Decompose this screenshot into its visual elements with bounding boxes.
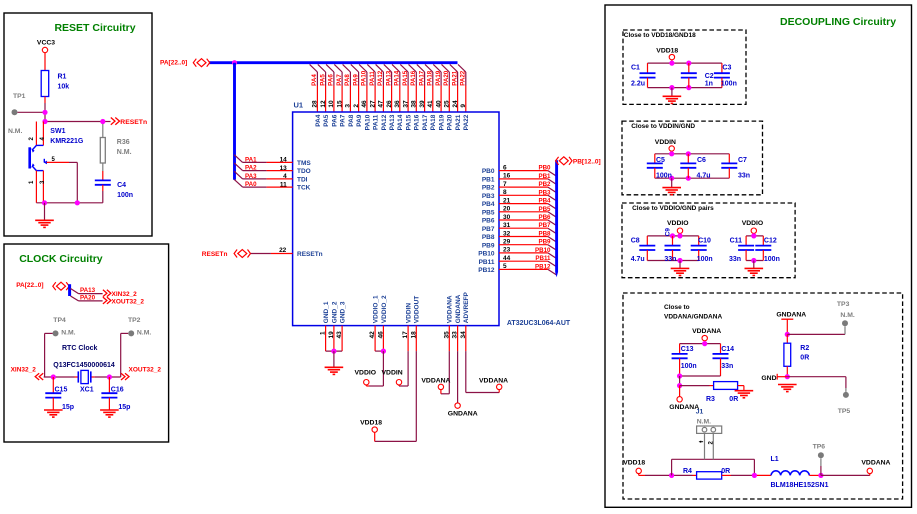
- power VDD18 symbol mid: [372, 427, 377, 432]
- svg-text:Close to: Close to: [664, 304, 690, 311]
- svg-text:PA1: PA1: [245, 156, 257, 163]
- wire C14 top: [720, 344, 722, 354]
- wire xtal node: [44, 376, 75, 378]
- svg-text:PA12: PA12: [381, 114, 388, 130]
- resistor R36: [100, 138, 105, 164]
- test point TP6: [818, 452, 824, 458]
- pin stub VDDIO_1: [374, 326, 376, 352]
- svg-text:PA7: PA7: [340, 114, 347, 127]
- wire PA13: [79, 293, 103, 295]
- bus entry PA7: [334, 64, 342, 72]
- svg-text:PA[22..0]: PA[22..0]: [160, 60, 187, 67]
- svg-text:ADVREFP: ADVREFP: [463, 291, 470, 323]
- wire gnd down: [333, 351, 335, 367]
- pin stub PA9: [358, 86, 360, 113]
- wire vddana stub1: [440, 390, 442, 394]
- GND tick: [776, 374, 778, 380]
- svg-text:PA15: PA15: [402, 70, 409, 86]
- svg-text:PB1: PB1: [482, 177, 495, 184]
- ground R2: [778, 385, 797, 392]
- svg-text:PA21: PA21: [451, 70, 458, 86]
- dashed box VDDIO: [622, 203, 795, 278]
- bus entry PB6: [548, 220, 557, 226]
- svg-text:C2: C2: [705, 73, 714, 80]
- wire C4 bottom: [102, 185, 104, 191]
- svg-text:TP4: TP4: [53, 317, 66, 324]
- wire net PA22: [465, 72, 467, 86]
- power VDD18 symbol d1: [669, 54, 674, 59]
- svg-text:TCK: TCK: [297, 185, 311, 192]
- test point TP2: [128, 330, 134, 336]
- wire net PB9: [509, 244, 548, 246]
- svg-text:PA11: PA11: [373, 114, 380, 130]
- junction TP1 node: [42, 110, 47, 115]
- junction d2 t1: [669, 151, 674, 156]
- pin stub PA12: [382, 86, 384, 113]
- svg-text:33n: 33n: [664, 256, 676, 263]
- test point TP5: [843, 392, 849, 398]
- pin stub PA22: [465, 86, 467, 113]
- svg-text:0R: 0R: [729, 396, 738, 403]
- svg-text:TDO: TDO: [297, 168, 311, 175]
- pin stub PA18: [432, 86, 434, 113]
- junction sw5 node: [75, 200, 80, 205]
- wire gnd stub: [44, 203, 46, 221]
- capacitor C10: [691, 246, 707, 250]
- wire net PB10: [509, 252, 548, 254]
- wire vdd18 stub: [374, 432, 376, 441]
- wire gnd d3b: [753, 261, 755, 269]
- svg-text:PB10: PB10: [535, 247, 551, 254]
- svg-text:8: 8: [503, 189, 507, 196]
- svg-text:R4: R4: [683, 468, 692, 475]
- svg-text:PA19: PA19: [439, 114, 446, 130]
- pin stub PA19: [440, 86, 442, 113]
- svg-text:PB9: PB9: [538, 239, 551, 246]
- bus entry PA5: [318, 64, 326, 72]
- svg-text:35: 35: [443, 331, 450, 339]
- wire vdd18 d4b: [638, 474, 640, 476]
- wire C16 gnd: [108, 398, 110, 410]
- svg-text:PA6: PA6: [331, 114, 338, 127]
- svg-text:PB12: PB12: [478, 267, 495, 274]
- svg-text:PA20: PA20: [447, 114, 454, 130]
- svg-text:DECOUPLING Circuitry: DECOUPLING Circuitry: [780, 16, 896, 28]
- svg-text:12: 12: [320, 100, 327, 108]
- pin stub PA21: [457, 86, 459, 113]
- wire vddin down: [407, 351, 409, 386]
- svg-text:GNDANA: GNDANA: [776, 312, 806, 319]
- svg-text:PA8: PA8: [348, 114, 355, 127]
- wire net PA20: [448, 72, 450, 86]
- bus entry PB7: [548, 228, 557, 234]
- junction d3a t1: [670, 233, 675, 238]
- test point TP3: [842, 320, 848, 326]
- junction R4 right: [752, 473, 757, 478]
- svg-text:PB0: PB0: [538, 165, 551, 172]
- svg-text:PB3: PB3: [538, 189, 551, 196]
- bus entry PA8: [343, 64, 351, 72]
- svg-text:TP6: TP6: [813, 444, 826, 451]
- svg-text:C7: C7: [738, 157, 747, 164]
- connector J1 pin2 circle: [711, 427, 716, 432]
- svg-text:4.7u: 4.7u: [631, 256, 645, 263]
- svg-text:PA17: PA17: [418, 70, 425, 86]
- resistor R2: [784, 343, 791, 366]
- junction r2 bot: [785, 374, 790, 379]
- svg-text:GND_2: GND_2: [331, 301, 338, 323]
- svg-text:PA4: PA4: [315, 114, 322, 127]
- wire C6 bottom: [687, 168, 689, 178]
- junction d3a t2: [677, 233, 682, 238]
- wire vdd18 d1: [671, 60, 673, 63]
- svg-text:PA13: PA13: [80, 287, 96, 294]
- wire net PB12: [509, 268, 548, 270]
- wire R36 top: [102, 124, 104, 138]
- power GNDANA symbol mid: [455, 403, 460, 408]
- wire C11 bottom: [745, 250, 747, 261]
- ground C16: [100, 410, 119, 417]
- wire vddana d4: [704, 341, 706, 344]
- wire L1 to TP6: [809, 474, 821, 476]
- wire gnd d2: [671, 178, 673, 187]
- power VDDIN symbol mid: [396, 380, 401, 385]
- svg-text:PA7: PA7: [336, 74, 343, 86]
- wire gndana circ: [679, 386, 681, 397]
- pin stub TMS: [267, 161, 293, 163]
- wire net PA1: [243, 161, 267, 163]
- bus entry PB3: [548, 195, 557, 201]
- svg-text:XC1: XC1: [80, 387, 94, 394]
- bus entry PB9: [548, 245, 557, 251]
- capacitor C6: [680, 163, 696, 167]
- bus entry PB12: [548, 269, 557, 275]
- svg-text:N.M.: N.M.: [840, 312, 854, 319]
- svg-text:C13: C13: [681, 346, 694, 353]
- svg-text:AT32UC3L064-AUT: AT32UC3L064-AUT: [507, 320, 571, 327]
- pin stub PB5: [499, 211, 509, 213]
- svg-text:VDDIO_2: VDDIO_2: [381, 295, 388, 323]
- svg-text:PA22: PA22: [463, 114, 470, 130]
- svg-text:VDDOUT: VDDOUT: [414, 296, 421, 323]
- wire C14 bottom: [720, 358, 722, 376]
- junction d1 t1: [669, 61, 674, 66]
- wire net PB11: [509, 260, 548, 262]
- pin stub PA4: [316, 86, 318, 113]
- svg-text:36: 36: [394, 100, 401, 108]
- wire C5 bottom: [654, 168, 656, 178]
- wire net PA13: [391, 72, 393, 86]
- svg-text:PB6: PB6: [482, 218, 495, 225]
- wire bottom rail d1: [648, 87, 722, 89]
- svg-text:28: 28: [312, 100, 319, 108]
- svg-text:VCC3: VCC3: [37, 40, 55, 47]
- junction d1 b2: [686, 85, 691, 90]
- svg-text:PA9: PA9: [352, 74, 359, 86]
- bus entry PA9: [351, 64, 359, 72]
- pin stub GND_1: [325, 326, 327, 352]
- power VDDIN symbol d2: [669, 146, 674, 151]
- svg-text:PB6: PB6: [538, 214, 551, 221]
- wire net PA3: [243, 178, 267, 180]
- wire vddout down: [415, 351, 417, 441]
- CLOCK circuitry frame: [4, 244, 169, 442]
- ground R3: [735, 391, 754, 398]
- wire net PA0: [243, 186, 267, 188]
- svg-text:PA13: PA13: [389, 114, 396, 130]
- junction gnd node: [42, 200, 47, 205]
- svg-text:2.2u: 2.2u: [631, 81, 645, 88]
- wire gnd d3a: [679, 261, 681, 269]
- junction gnd pins: [331, 349, 336, 354]
- wire net PA11: [374, 72, 376, 86]
- svg-text:10k: 10k: [58, 84, 70, 91]
- wire bottom rail d2: [655, 177, 730, 179]
- svg-text:PB11: PB11: [535, 255, 551, 262]
- chevrons XOUT32_2 right: [121, 373, 125, 380]
- wire vddio stub: [365, 385, 367, 386]
- svg-text:VDDANA: VDDANA: [861, 460, 890, 467]
- svg-text:14: 14: [280, 157, 288, 164]
- bus entry PB5: [548, 212, 557, 218]
- svg-text:C4: C4: [117, 182, 126, 189]
- svg-text:PA22: PA22: [460, 70, 467, 86]
- svg-text:PB8: PB8: [538, 231, 551, 238]
- wire net PA4: [316, 72, 318, 86]
- bus entry PB0: [548, 171, 557, 177]
- wire net PA21: [457, 72, 459, 86]
- svg-text:VDDIO: VDDIO: [667, 220, 689, 227]
- capacitor C1: [640, 73, 656, 77]
- test point TP4: [53, 330, 59, 336]
- svg-text:VDD18: VDD18: [360, 420, 382, 427]
- wire xtal node right: [91, 376, 95, 378]
- resistor R1: [41, 71, 49, 97]
- pin stub PB1: [499, 178, 509, 180]
- wire C2 bottom: [688, 78, 690, 88]
- wire C3 bottom: [721, 78, 723, 88]
- pin stub GNDANA: [457, 326, 459, 352]
- switch SW1 pin1 wire: [35, 171, 37, 203]
- svg-text:TP5: TP5: [838, 408, 851, 415]
- capacitor C14: [713, 354, 729, 358]
- ground d2: [662, 188, 681, 195]
- wire RESETn net: [45, 121, 103, 123]
- svg-text:PB2: PB2: [538, 181, 551, 188]
- connector J1 pin1 circle: [702, 427, 707, 432]
- chevrons XOUT32_2: [103, 297, 107, 304]
- svg-text:XIN32_2: XIN32_2: [11, 367, 37, 374]
- svg-text:2: 2: [353, 104, 360, 108]
- ground d1: [663, 96, 682, 103]
- wire net PB2: [509, 186, 548, 188]
- svg-text:10: 10: [328, 100, 335, 108]
- junction r2 top: [785, 332, 790, 337]
- wire C12 bottom: [762, 250, 764, 261]
- wire net PB5: [509, 211, 548, 213]
- svg-text:R1: R1: [58, 74, 67, 81]
- svg-text:PB0: PB0: [482, 168, 495, 175]
- wire net PA15: [407, 72, 409, 86]
- pin stub PB11: [499, 260, 509, 262]
- wire cap647.3 top: [646, 236, 648, 246]
- RESETn diamond: [234, 250, 250, 258]
- junction C15 top: [51, 374, 56, 379]
- pin stub PA13: [391, 86, 393, 113]
- svg-text:TMS: TMS: [297, 160, 311, 167]
- bus PA vertical: [233, 63, 236, 180]
- pin stub PA5: [325, 86, 327, 113]
- bus entry PA20: [442, 64, 450, 72]
- svg-text:XOUT32_2: XOUT32_2: [129, 367, 162, 374]
- power VDDIO symbol d3b: [751, 228, 756, 233]
- capacitor C7: [721, 163, 737, 167]
- svg-text:GNDANA: GNDANA: [448, 411, 478, 418]
- wire C2 top: [688, 63, 690, 73]
- wire top rail d3b: [746, 235, 763, 237]
- capacitor C16: [101, 393, 117, 397]
- pin stub PA17: [424, 86, 426, 113]
- svg-text:N.M.: N.M.: [61, 330, 75, 337]
- wire C15 gnd: [52, 398, 54, 410]
- capacitor C3: [714, 73, 730, 77]
- bus entry PB11: [548, 261, 557, 267]
- capacitor C15: [45, 393, 61, 397]
- bus entry PA14: [392, 64, 400, 72]
- pin stub PA15: [407, 86, 409, 113]
- switch SW1 pin3 wire: [42, 171, 44, 203]
- bus entry PA19: [433, 64, 441, 72]
- wire gndana left: [679, 376, 681, 386]
- wire R4 to L1: [722, 474, 731, 476]
- pin stub PB3: [499, 194, 509, 196]
- wire advrefp down: [465, 351, 467, 392]
- wire R2 bottom: [786, 366, 788, 376]
- connector J1 pin2 wire: [712, 433, 714, 459]
- bus entry PA13: [71, 289, 79, 294]
- bus PA[22..0] horizontal: [209, 61, 458, 64]
- PA bus diamond clock: [53, 282, 69, 290]
- pin stub PA6: [333, 86, 335, 113]
- wire to R3: [680, 385, 710, 387]
- pin stub TCK: [267, 186, 293, 188]
- svg-text:33: 33: [452, 331, 459, 339]
- svg-text:40: 40: [435, 100, 442, 108]
- pin stub PA16: [415, 86, 417, 113]
- svg-text:VDDANA: VDDANA: [421, 378, 450, 385]
- wire net PA5: [325, 72, 327, 86]
- wire top rail d4: [680, 343, 721, 345]
- wire cap647.3 bottom: [646, 250, 648, 261]
- svg-text:13: 13: [280, 165, 288, 172]
- svg-text:1: 1: [320, 331, 327, 335]
- svg-text:PA6: PA6: [328, 74, 335, 86]
- power VDDANA symbol mid1: [438, 384, 443, 389]
- svg-text:6: 6: [503, 164, 507, 171]
- svg-text:PB4: PB4: [482, 201, 495, 208]
- pin stub PB2: [499, 186, 509, 188]
- capacitor C9: [665, 246, 681, 250]
- bus entry PA13: [384, 64, 392, 72]
- ground C15: [44, 410, 63, 417]
- bus entry PA15: [400, 64, 408, 72]
- bus entry PA22: [458, 64, 466, 72]
- svg-text:43: 43: [336, 331, 343, 339]
- pin stub VDDIN: [407, 326, 409, 352]
- svg-text:100n: 100n: [721, 81, 737, 88]
- svg-text:RTC Clock: RTC Clock: [62, 345, 98, 352]
- svg-text:C8: C8: [631, 238, 640, 245]
- wire net PB1: [509, 178, 548, 180]
- svg-text:PB[12..0]: PB[12..0]: [573, 158, 601, 165]
- svg-text:PA2: PA2: [245, 165, 257, 172]
- pin stub PA10: [366, 86, 368, 113]
- svg-text:PA0: PA0: [245, 181, 257, 188]
- pin stub PB7: [499, 227, 509, 229]
- switch SW1 pin2 wire: [35, 122, 37, 146]
- wire net PB8: [509, 236, 548, 238]
- svg-text:KMR221G: KMR221G: [50, 138, 84, 145]
- svg-text:TP2: TP2: [128, 317, 141, 324]
- ground d3a: [671, 268, 690, 275]
- wire net PA2: [243, 170, 267, 172]
- svg-text:11: 11: [280, 181, 287, 188]
- capacitor C2: [681, 73, 697, 77]
- svg-text:18: 18: [410, 331, 417, 339]
- wire bottom rail d4: [680, 375, 721, 377]
- pin stub PA11: [374, 86, 376, 113]
- ground d3b: [745, 268, 764, 275]
- svg-text:VDDIN: VDDIN: [655, 139, 676, 146]
- wire top rail d1: [648, 62, 722, 64]
- svg-text:33n: 33n: [721, 363, 733, 370]
- junction d2 t2: [686, 151, 691, 156]
- junction d2 b1: [669, 176, 674, 181]
- svg-text:PA5: PA5: [323, 114, 330, 127]
- wire C11 top: [745, 236, 747, 246]
- svg-text:27: 27: [369, 100, 376, 108]
- svg-text:22: 22: [279, 247, 287, 254]
- svg-text:C11: C11: [730, 238, 743, 245]
- bus entry PA1: [234, 155, 242, 163]
- RESETn chevron: [111, 118, 115, 125]
- wire net PB0: [509, 170, 548, 172]
- ground mcu: [325, 367, 344, 374]
- test point TP1: [12, 109, 18, 115]
- svg-text:N.M.: N.M.: [8, 128, 22, 135]
- wire C7 top: [728, 154, 730, 164]
- svg-text:25: 25: [444, 100, 451, 108]
- wire vddio d3b: [753, 233, 755, 236]
- wire C1 top: [647, 63, 649, 73]
- junction d4 t1: [702, 341, 707, 346]
- wire C7 bottom: [728, 168, 730, 178]
- wire net PA19: [440, 72, 442, 86]
- wire cap672.5 bottom: [672, 250, 674, 261]
- wire sw bottom: [36, 202, 102, 204]
- svg-text:C10: C10: [698, 238, 711, 245]
- wire vddio join: [375, 350, 383, 352]
- bus entry PA17: [417, 64, 425, 72]
- svg-text:PA20: PA20: [80, 295, 96, 302]
- junction d1 t2: [686, 61, 691, 66]
- bus entry PB4: [548, 204, 557, 210]
- svg-text:PA18: PA18: [427, 70, 434, 86]
- chevrons XIN32_2 left: [35, 373, 39, 380]
- J1 pin number 1: [700, 441, 704, 443]
- capacitor C8: [639, 246, 655, 250]
- wire C13 bottom: [679, 358, 681, 376]
